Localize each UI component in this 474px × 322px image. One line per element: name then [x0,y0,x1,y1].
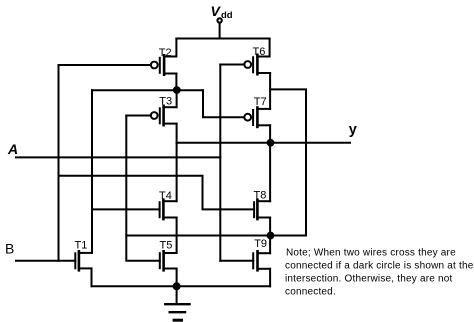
svg-text:T5: T5 [160,240,173,252]
wire T3 source down to output [176,124,178,143]
wire Vdd stem [219,23,221,39]
note text [285,248,474,298]
ground [165,286,189,320]
wire T7 source down to output [269,125,271,143]
svg-text:Note; When two wires cross the: Note; When two wires cross they are [286,248,456,259]
wire ground rail [92,285,271,287]
transistor T4 (NMOS) [160,200,177,219]
svg-text:B: B [5,241,14,257]
wire A to T9 gate lead [220,260,253,262]
svg-text:dd: dd [221,10,233,21]
svg-text:T4: T4 [159,190,172,202]
svg-text:T6: T6 [253,46,266,58]
wire T4 source down to T5 drain [176,218,178,254]
svg-text:V: V [211,3,222,19]
wire T8 drain up to output [269,143,271,201]
transistor T2 (PMOS) [151,55,176,74]
svg-text:T1: T1 [75,240,88,252]
wire n1 branch to T4 gate [92,208,160,210]
wire T6 drain to rail [257,39,269,57]
Vdd terminal circle [217,18,221,22]
wire n1 horizontal [92,89,203,91]
transistor T3 (PMOS) [151,106,177,125]
node output junction dot [267,139,275,147]
wire A vertical to T6 and T9 gates [219,65,221,261]
wire T3 drain up to n1 [176,90,178,107]
wire A to T6 gate lead [220,64,244,66]
node n2 junction dot [267,232,275,240]
wire node n2 branch right [270,89,306,235]
transistor T1 (NMOS) [75,251,91,270]
wire output down to T4 drain [176,143,178,201]
svg-text:y: y [349,122,357,138]
transistor T5 (NMOS) [160,251,177,270]
svg-text:A: A [7,141,18,157]
svg-text:T7: T7 [254,96,267,108]
wire T2 drain to rail [164,39,176,57]
wire T9 source down to ground rail [269,269,271,287]
wire T5 source down to ground dot [176,269,178,287]
transistor T9 (NMOS) [253,251,270,270]
wire T9 drain up to n2 dot [269,236,271,254]
svg-text:T9: T9 [254,238,267,250]
wire T1 source down to ground rail [91,268,93,286]
svg-text:intersection. Otherwise, they: intersection. Otherwise, they are not [285,274,452,285]
transistor T8 (NMOS) [254,200,270,219]
Vdd supply label [211,3,233,21]
svg-text:T2: T2 [159,47,172,59]
wire T2 gate lead [59,64,151,66]
svg-text:connected if a dark circle is: connected if a dark circle is shown at t… [285,261,474,272]
wire Vdd rail [176,38,269,40]
svg-text:T3: T3 [159,96,172,108]
wire input A [16,156,220,158]
svg-text:connected.: connected. [285,287,336,298]
wire n1 to T7 gate [203,90,244,117]
transistor T7 (PMOS) [244,108,270,127]
wire output y horizontal [177,142,350,144]
wire T3 gate lead [126,115,151,117]
wire T8 source down to n2 dot [269,218,271,236]
wire input B to T2 gate vertical [58,65,60,261]
node n1 junction dot [173,86,181,94]
wire B branch to T8 gate [59,176,255,210]
wire T6 source / T7 drain vertical [269,73,271,109]
node ground junction dot [173,282,181,290]
wire n1 left branch down to T1 drain [91,90,93,253]
transistor T6 (PMOS) [244,55,270,74]
wire T2 source down to node n1 [175,74,177,91]
wire input B [16,260,75,262]
wire T3 gate vertical down to T5 gate [126,116,160,261]
svg-text:T8: T8 [254,190,267,202]
wire n2 horizontal to T3/T5 gates column [126,235,306,237]
